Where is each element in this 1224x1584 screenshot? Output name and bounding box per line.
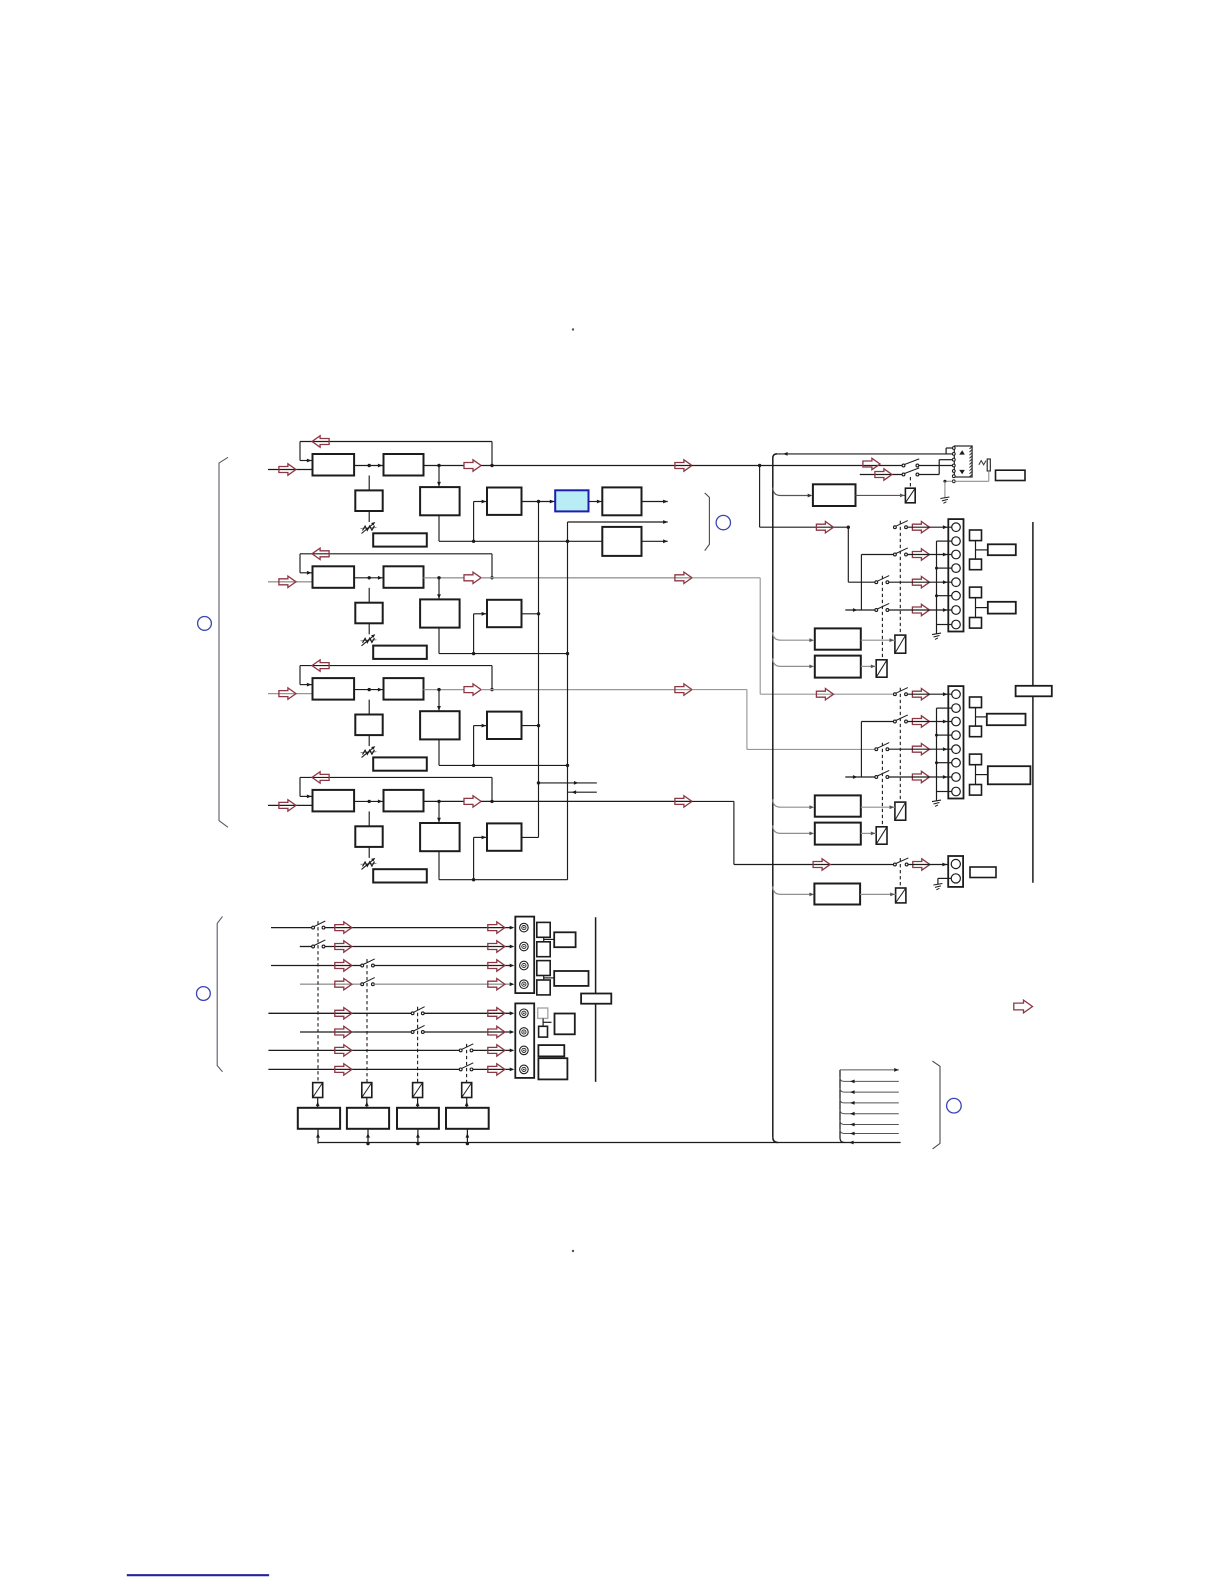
trimmer adjust symbol CH3 [361,746,377,758]
registration dot top [572,328,574,330]
speaker arrow in Ba [816,689,833,700]
wire terminal link B [937,734,952,736]
RCA jack 3 [520,961,529,970]
switch headphone upper [902,459,919,467]
wire jack square T lower2 [543,1021,551,1023]
terminal A8 [952,620,961,629]
terminal polarity square B2 [970,726,982,737]
ground headphone jack [940,497,949,503]
wire feedback tap vertical CH1 [491,442,493,466]
footer rule [127,1574,269,1576]
arrowhead relay coil A2 [871,665,876,669]
wire terminal link A [937,567,952,569]
wire buffer down CH4 [438,851,440,877]
wire feedback into amp CH4 [300,795,313,797]
wire jack square link upper [543,937,545,942]
selector wire 8 pre [268,1068,459,1070]
wire bus2 top branch [568,521,668,523]
fan branch arrowhead 6 [850,1132,855,1136]
fan riser curve [840,1070,845,1143]
block relay driver B1 [815,795,861,816]
sub arrow out [913,859,930,870]
speaker arrow out A4 [912,604,929,615]
wire common terminals A [936,541,938,624]
sub terminal 2 [951,874,960,883]
node filter output branch CH1 [437,464,440,467]
node bus driver 3 [416,1142,419,1145]
wire buffer down extra CH3 [438,764,440,766]
arrowhead bus2 branch output [663,520,668,524]
second output arrow CH4 [675,796,692,807]
terminal B4 [952,731,961,740]
node feedback tap CH1 [490,464,493,467]
node filter output branch CH4 [437,800,440,803]
node jack sleeve [943,480,946,483]
block driver CH2 [487,600,522,627]
wire driver to relay 4 [466,1098,468,1108]
block control wide CH3 [373,757,427,770]
wire filter output CH2 [424,577,465,579]
wire feedback drop CH4 [299,777,301,796]
arrowhead into filter CH2 [378,576,383,580]
wire b-d tie B [860,722,862,778]
wire sub terminal 2 left [938,877,951,879]
relay headphone mute [905,488,915,503]
headphone jack body [954,446,972,477]
wire headphone amp to relay [856,494,906,496]
block selector driver 4 [446,1108,489,1129]
block sub relay driver [814,884,860,905]
block volume CH3 [355,715,382,736]
speaker arrow out A2 [912,549,929,560]
wire cyan to post amp [589,501,603,503]
speaker arrow out B4 [912,771,929,782]
wire switch to terminal A2 [907,554,951,556]
arrowhead into relay driver B1 [809,805,814,809]
wire filter output CH3 [424,689,465,691]
selector switch 8 [459,1063,473,1071]
arrowhead d stub A [853,608,858,612]
wire output to tap CH1 [481,465,692,467]
arrowhead into driver CH1 [482,500,487,504]
arrowhead into driver CH2 [482,612,487,616]
label box jacks 5 [538,1058,567,1079]
page reference circle B [716,515,730,529]
wire jack sleeve gray up [988,471,990,481]
arrowhead into cyan DSP [550,500,555,504]
node common B 1 [935,734,938,737]
node feedback tap CH4 [490,800,493,803]
block filter CH4 [384,790,424,812]
fan branch 2 [840,1088,899,1092]
bracket output group [705,493,710,551]
arrowhead terminal B3 [943,747,948,751]
node volume tap CH2 [368,576,371,579]
wire b-d tie A [860,555,862,611]
arrowhead feedback into amp CH4 [307,795,312,799]
RCA jack 2 [520,942,529,951]
wire square T B lower [976,774,988,776]
switch speaker A1 [894,521,908,529]
RCA jack 7 [520,1046,529,1055]
headphone arrow upper [863,458,880,469]
selector switch 4 [361,978,375,986]
speaker arrow in Aa [816,522,833,533]
block volume CH4 [355,826,382,847]
sub terminal block [948,856,963,887]
node driver feed CH2 [472,652,475,655]
wire into driver CH1 [474,501,487,503]
wire volume to trimmer CH3 [368,735,370,746]
arrowhead into filter CH1 [378,464,383,468]
wire switch to terminal A4 [889,609,952,611]
label box speakers B front [987,714,1026,726]
sub terminal 1 [951,859,960,868]
wire feedback tap vertical CH2 [491,554,493,578]
wire feedback into amp CH3 [300,684,313,686]
headphone jack contact 4 [952,464,955,467]
ground sub [933,884,942,890]
wire volume to trimmer CH2 [368,623,370,634]
arrowhead relay coil B1 [890,805,895,809]
wire input stub CH2 [268,581,313,583]
node volume tap CH4 [368,800,371,803]
node driver feed CH1 [472,540,475,543]
wire switch2 riser [938,460,940,475]
wire terminal link B [937,707,952,709]
wire tap to volume box CH1 [368,476,370,491]
node bus2 tap CH3 [566,764,569,767]
node bus1 tap CH3 [537,724,540,727]
wire CH4 down to sub [733,801,735,864]
bus bottom left riser [317,1129,319,1144]
label box jacks 1 [554,932,575,947]
jack label square 4 [537,980,550,995]
page reference circle D [197,987,211,1001]
registration dot bottom [572,1250,574,1252]
wire square T A lower [976,607,988,609]
fan branch arrowhead 3 [850,1101,855,1105]
wire headphone lower [860,474,902,476]
selector arrow b 2 [488,941,505,952]
wire CH1 to headphone switch [692,465,902,467]
wire b feed B [861,721,893,723]
selector arrow a 4 [335,979,352,990]
fan branch 5 [840,1120,899,1124]
wire CH2 speakers B feed [760,693,893,695]
RCA jack 4 [520,980,529,989]
block control wide CH4 [373,869,427,882]
selector wire 3 mid [374,965,511,967]
block input amp CH1 [313,454,355,476]
arrowhead into filter CH3 [378,688,383,692]
bus 2 vertical (buffer bottoms) [567,522,569,880]
terminal A6 [952,591,961,600]
jack spring contact lower [959,470,965,474]
node bus1 top tap CH1 [537,500,540,503]
selector switch 1 [312,921,326,929]
wire common ground drop A [936,625,938,634]
wire square link B upper [975,708,977,727]
speaker arrow out A1 [912,522,929,533]
wire buffer down extra CH1 [438,540,440,542]
speaker arrow out B1 [912,689,929,700]
arrowhead feedback into amp CH2 [307,571,312,575]
dashed A relay2 [881,576,883,660]
lone output arrow bottom right [1014,1000,1033,1013]
arrowhead into headphone amp [808,494,813,498]
dashed selector relay 4 [466,1044,468,1083]
input arrow CH4 [279,800,296,811]
switch speaker B3 [875,743,889,751]
wire CH3 down to speakers B c [746,690,748,750]
selector switch 5 [411,1007,424,1015]
wire CH1 speakers A feed [760,526,849,528]
second output arrow CH2 [675,572,692,583]
label box sub [970,867,996,878]
wire branch down to buffer CH3 [438,690,440,712]
selector switch 3 [361,959,375,967]
block filter CH3 [384,678,424,700]
block driver CH1 [487,488,522,515]
wire square T A upper [976,549,988,551]
arrowhead into driver CH4 [482,836,487,840]
node bus2 tap CH1 [566,540,569,543]
separator vertical selector [595,917,597,1082]
wire switch1 to jack pin4 [919,465,953,467]
block control wide CH2 [373,646,427,659]
arrowhead into relay 1 [316,1102,320,1107]
arrowhead into jack block 5 [510,1011,515,1015]
bus 1 vertical (driver outputs) [538,502,540,838]
wire CH2 down to speakers B [759,578,761,694]
terminal B8 [952,787,961,796]
terminal polarity square B4 [970,785,982,796]
fan branch 3 [840,1099,899,1103]
curve bus to relay driver B1 [773,799,812,807]
wire feedback tap vertical CH3 [491,666,493,690]
block relay driver A2 [815,656,861,678]
headphone arrow lower [875,469,892,480]
wire driver to relay 1 [317,1098,319,1108]
jack plug tip [987,459,990,471]
wire buffer bottom run CH4 [439,879,568,881]
arrowhead feedback into amp CH1 [307,459,312,463]
node volume tap CH3 [368,688,371,691]
selector arrow a 8 [335,1064,352,1075]
terminal B7 [952,773,961,782]
arrowhead top jack wire [783,452,788,456]
second output arrow CH3 [675,684,692,695]
selector wire 1 mid [325,927,511,929]
wire d stub B [845,776,875,778]
wire branch down to buffer CH2 [438,578,440,600]
wire riser to jack pin3 [939,459,952,461]
terminal B5 [952,745,961,754]
selector arrow b 1 [488,922,505,933]
switch speaker A4 [875,603,889,611]
wire top to jack [776,453,952,455]
switch speaker B2 [894,715,908,723]
jack plug zigzag [979,461,986,465]
wire input stub CH1 [268,469,313,471]
wire feedback drop CH3 [299,666,301,685]
arrowhead into buffer CH4 [437,818,441,823]
label box selector title [581,994,611,1004]
wire jack sleeve gray left [945,480,953,482]
arrowhead into relay driver B2 [809,832,814,836]
wire output to tap CH3 [481,689,692,691]
wire feedback into amp CH1 [300,460,313,462]
wire amp to filter CH2 [354,577,383,579]
headphone jack hatch [970,447,972,477]
wire d stub A [845,609,875,611]
arrowhead into driver CH3 [482,724,487,728]
terminal polarity square B3 [970,754,982,765]
sub arrow in [813,859,830,870]
wire driver output CH2 [522,613,539,615]
bus main vertical (control) [772,458,774,1137]
terminal B6 [952,758,961,767]
wire jack sleeve gray right [955,480,989,482]
wire bus1 stub lower [539,782,597,784]
selector arrow a 6 [335,1026,352,1037]
wire output to tap CH2 [481,577,692,579]
arrowhead into jack block 6 [510,1030,515,1034]
RCA jack 1 [520,923,529,932]
terminal polarity square B1 [970,697,982,708]
input jack block lower [515,1003,534,1078]
arrowhead into driver 2 [366,1133,370,1138]
wire post amp output [642,501,668,503]
trimmer adjust symbol CH2 [361,634,377,646]
arrowhead into driver 3 [416,1133,420,1138]
terminal B3 [952,717,961,726]
wire buffer down CH1 [438,515,440,541]
block input amp CH2 [313,566,355,588]
dashed B relay2 [881,743,883,827]
jack label square 1 [537,922,550,937]
relay speaker B1 [895,802,906,820]
selector wire 1 pre [271,927,312,929]
wire volume to trimmer CH1 [368,511,370,522]
arrowhead relay coil A1 [890,638,895,642]
node CH1 speaker branch [758,464,761,467]
wire bus2 stub lower [568,791,597,793]
wire CH4 run [692,800,734,802]
bracket fan group [932,1061,940,1149]
wire tap to volume box CH3 [368,700,370,715]
wire bus to driver 4 [466,1129,468,1144]
wire switch to terminal A1 [907,526,951,528]
wire into driver CH4 [474,836,487,838]
trimmer adjust symbol CH1 [361,522,377,534]
fan branch arrowhead 2 [850,1090,855,1094]
selector wire 4 mid [374,983,511,985]
wire feedback into amp CH2 [300,572,313,574]
wire tap to volume box CH2 [368,588,370,603]
trimmer adjust symbol CH4 [361,858,377,870]
arrowhead terminal B4 [943,775,948,779]
terminal A5 [952,578,961,587]
node bus1 tap CH2 [537,612,540,615]
node feedback tap CH3 [490,688,493,691]
arrowhead aux output [663,539,668,543]
selector switch 7 [459,1044,473,1052]
wire branch down to buffer CH1 [438,466,440,488]
arrowhead into jack block 2 [510,945,515,949]
jack label square 3 [537,961,550,976]
terminal B1 [952,690,961,699]
selector arrow b 4 [488,979,505,990]
wire up to driver CH1 [473,502,475,542]
wire tap to volume box CH4 [368,811,370,826]
jack label square white [539,1026,548,1037]
label box speakers B rear [988,766,1031,784]
arrowhead post amp output [663,500,668,504]
headphone jack contact 7 [952,480,955,483]
arrowhead into headphone relay [900,494,905,498]
block aux processor [602,527,641,556]
wire common ground drop B [936,792,938,801]
node common A 1 [935,567,938,570]
selector arrow b 3 [488,960,505,971]
selector wire 2 mid [325,946,511,948]
wire buffer down CH3 [438,739,440,765]
RCA jack 5 [520,1009,529,1018]
fan branch arrowhead 4 [850,1112,855,1116]
node driver feed CH4 [472,878,475,881]
relay selector 3 [413,1083,423,1098]
feedback return arrow CH4 [312,772,329,783]
arrowhead into filter CH4 [378,800,383,804]
input arrow CH2 [279,576,296,587]
selector wire 7 pre [268,1049,459,1051]
wire buffer bottom run CH2 [439,653,568,655]
speaker terminal block B [948,686,963,798]
node filter output branch CH3 [437,688,440,691]
headphone jack contact 2 [952,453,955,456]
bracket selector group [217,916,222,1071]
jack label square gray [538,1008,548,1018]
wire CH3 speakers B row c feed [747,748,875,750]
selector switch 2 [312,940,326,948]
second output arrow CH1 [675,460,692,471]
arrowhead into jack block 4 [510,982,515,986]
jack label square 2 [537,942,550,957]
wire feedback drop CH2 [299,554,301,573]
headphone jack contact 3 [952,458,955,461]
label box jacks 3 [555,1014,575,1035]
wire amp to filter CH1 [354,465,383,467]
terminal A1 [952,523,961,532]
switch speaker A2 [894,548,908,556]
arrowhead into buffer CH3 [437,706,441,711]
wire relay driver B1 out [861,806,895,808]
arrowhead sub relay coil [890,893,895,897]
block driver CH4 [487,823,522,850]
wire common terminals B [936,708,938,791]
arrowhead bus1 stub [574,781,579,785]
RCA jack 8 [520,1065,529,1074]
arrowhead bus2 stub [572,790,577,794]
wire buffer bottom run CH1 [439,540,602,542]
terminal A4 [952,564,961,573]
wire switch to terminal B3 [889,748,952,750]
terminal A7 [952,606,961,615]
node bus driver 4 [466,1142,469,1145]
input jack block upper [515,917,534,994]
